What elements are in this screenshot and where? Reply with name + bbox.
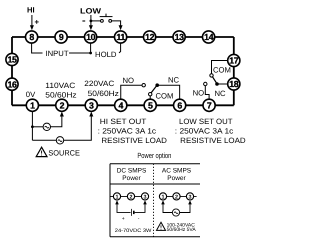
arrow into AC3	[188, 200, 192, 204]
svg-text:LOW: LOW	[80, 7, 102, 16]
svg-text:110VAC: 110VAC	[45, 81, 75, 90]
svg-text:18: 18	[229, 79, 238, 89]
svg-text:5: 5	[148, 100, 153, 110]
node HI input arrow	[27, 6, 40, 31]
terminal AC3	[186, 193, 193, 201]
svg-text:11: 11	[116, 32, 125, 42]
node LOW input arrow	[80, 7, 102, 31]
svg-text:HI: HI	[27, 6, 35, 15]
svg-text:+: +	[35, 18, 40, 27]
battery B1	[131, 209, 133, 216]
arrow into DC1	[115, 200, 119, 204]
node junction dot on LOW line	[90, 20, 93, 23]
terminal T16	[6, 78, 18, 90]
warning triangle AC	[157, 222, 166, 230]
wire bottom rail	[12, 104, 234, 106]
svg-text:13: 13	[175, 32, 184, 42]
terminal T2	[56, 99, 68, 111]
svg-text:50/60Hz: 50/60Hz	[45, 91, 76, 100]
relay K1 arm	[151, 86, 157, 93]
label HI SET OUT block	[98, 117, 168, 145]
svg-text:NO: NO	[123, 76, 135, 85]
svg-text:7: 7	[207, 100, 212, 110]
svg-text:: 250VAC 3A 1c: : 250VAC 3A 1c	[98, 126, 157, 135]
svg-text:17: 17	[229, 56, 238, 66]
relay K2 COM wire from T17	[212, 61, 228, 74]
wire INPUT to T10 tick	[69, 52, 91, 54]
wire T8 tick down to INPUT	[32, 43, 43, 53]
node junction dot INPUT/HOLD	[89, 52, 92, 55]
terminal T1	[26, 99, 38, 111]
svg-text:Power: Power	[167, 175, 186, 182]
AC source G3	[172, 209, 179, 216]
svg-text:15: 15	[8, 55, 17, 65]
relay K1 pivot from T5	[149, 96, 151, 99]
power box divider dashed	[153, 164, 155, 237]
wire DC loop	[117, 203, 145, 213]
wire T1 down to sources	[31, 111, 33, 140]
svg-text:2: 2	[60, 100, 65, 110]
wire NC to T6	[157, 85, 179, 99]
svg-text:6: 6	[177, 100, 182, 110]
terminal T18	[228, 78, 240, 90]
svg-text:COM: COM	[213, 66, 231, 75]
arrow into DC3	[143, 200, 147, 204]
svg-text:50/60Hz: 50/60Hz	[88, 89, 119, 98]
svg-text:10: 10	[86, 32, 95, 42]
terminal AC2	[173, 193, 180, 201]
svg-text:220VAC: 220VAC	[84, 79, 114, 88]
terminal T8	[26, 31, 38, 43]
svg-text:RESISTIVE LOAD: RESISTIVE LOAD	[101, 136, 167, 145]
terminal T11	[115, 31, 127, 43]
relay K1 NO contact circle	[142, 84, 145, 87]
svg-text:4: 4	[119, 100, 124, 110]
relay K2 pivot	[210, 74, 213, 77]
svg-text:+: +	[122, 216, 125, 222]
svg-text:8: 8	[29, 32, 34, 42]
arrow into AC1	[161, 200, 165, 204]
terminal T17	[228, 54, 240, 66]
terminal DC1	[113, 193, 120, 201]
terminal T10	[85, 31, 97, 43]
svg-text:HOLD: HOLD	[95, 50, 117, 59]
relay K2 NC dot	[215, 82, 219, 86]
terminal DC3	[141, 193, 148, 201]
wire top rail	[12, 36, 234, 38]
terminal T5	[144, 99, 156, 111]
svg-text:HI SET OUT: HI SET OUT	[100, 117, 147, 126]
svg-text:1: 1	[116, 195, 119, 201]
terminal T3	[85, 99, 97, 111]
svg-text:1: 1	[162, 195, 165, 201]
terminal T6	[174, 99, 186, 111]
svg-text:1: 1	[30, 100, 35, 110]
svg-text:: 250VAC 3A 1c: : 250VAC 3A 1c	[175, 126, 234, 135]
terminal T4	[115, 99, 127, 111]
svg-text:2: 2	[130, 195, 133, 201]
wire T11 tick down hook	[119, 43, 121, 53]
svg-text:24-70VDC 3W: 24-70VDC 3W	[115, 228, 152, 234]
svg-text:SOURCE: SOURCE	[48, 149, 80, 158]
terminal T7	[203, 99, 215, 111]
svg-text:16: 16	[8, 79, 17, 89]
svg-text:LOW SET OUT: LOW SET OUT	[179, 117, 233, 126]
svg-text:3: 3	[189, 195, 192, 201]
svg-text:3: 3	[144, 195, 147, 201]
wire NO to T7	[205, 86, 209, 100]
svg-text:50/60Hz 5VA: 50/60Hz 5VA	[167, 227, 197, 233]
svg-text:12: 12	[145, 32, 154, 42]
svg-text:2: 2	[175, 195, 178, 201]
power box frame	[110, 164, 200, 237]
wire NC dot to T18	[217, 83, 228, 85]
svg-text:Power option: Power option	[137, 151, 171, 160]
wire left rail	[11, 37, 13, 105]
terminal DC2	[127, 193, 134, 201]
svg-text:9: 9	[59, 32, 64, 42]
terminal T13	[173, 31, 185, 43]
svg-text:NC: NC	[215, 89, 227, 98]
wire G2 to T3 arrow	[64, 116, 92, 140]
node junction dot	[31, 125, 34, 128]
svg-text:NC: NC	[168, 76, 180, 85]
AC source G1	[32, 126, 43, 128]
wire AC loop	[163, 203, 190, 213]
svg-text:DC SMPS: DC SMPS	[117, 168, 147, 175]
wire DC terminal row line	[110, 195, 148, 197]
wire AC terminal row line	[160, 195, 197, 197]
label LOW SET OUT block	[175, 117, 246, 145]
svg-text:INPUT: INPUT	[46, 49, 69, 58]
relay K1 NO wire from T4	[121, 85, 142, 99]
terminal T12	[144, 31, 156, 43]
warning triangle SOURCE	[36, 147, 47, 156]
svg-text:Power: Power	[122, 175, 141, 182]
svg-text:3: 3	[89, 100, 94, 110]
wire SW to T11	[112, 21, 121, 26]
svg-text:14: 14	[204, 32, 213, 42]
relay K2 NO circle	[204, 82, 207, 85]
terminal T14	[203, 31, 215, 43]
svg-text:RESISTIVE LOAD: RESISTIVE LOAD	[180, 136, 246, 145]
switch SW hold pushbutton	[91, 14, 121, 26]
terminal T9	[55, 31, 67, 43]
svg-text:AC SMPS: AC SMPS	[162, 168, 192, 175]
relay K1 NC dot	[155, 83, 159, 87]
terminal AC1	[159, 193, 166, 201]
wire G1 to T2 arrow	[51, 116, 62, 127]
AC source G2	[32, 139, 56, 141]
relay K2 arm	[213, 77, 217, 84]
wire right rail	[233, 37, 235, 105]
svg-text:COM: COM	[156, 91, 174, 100]
svg-text:NO: NO	[193, 88, 205, 97]
terminal T15	[6, 53, 18, 65]
svg-text:0V: 0V	[26, 90, 36, 99]
